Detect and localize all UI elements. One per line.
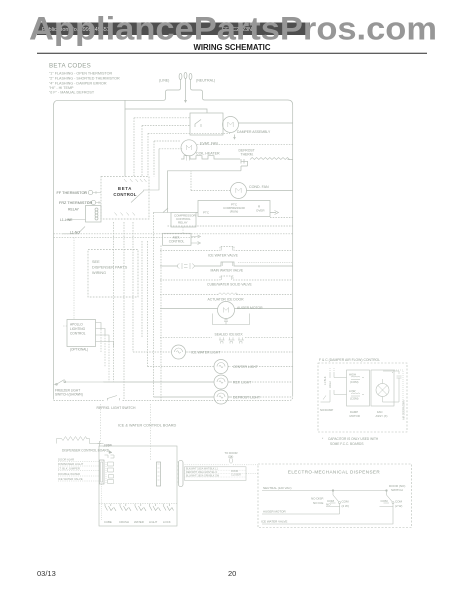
svg-text:CONTROL: CONTROL	[70, 332, 86, 336]
board input junction	[98, 441, 115, 458]
junction label	[104, 443, 112, 447]
damper assembly box	[190, 113, 223, 135]
svg-text:PTC: PTC	[203, 211, 210, 215]
schematic main group	[54, 73, 412, 528]
label cube water valve	[207, 283, 252, 287]
ground symbol at plug	[184, 79, 187, 104]
label refrig light switch	[97, 406, 136, 410]
cube water valve coil	[160, 276, 293, 280]
svg-text:HIGH: HIGH	[328, 381, 332, 388]
svg-text:*: *	[322, 437, 324, 441]
svg-text:ICE WATER VALVE: ICE WATER VALVE	[261, 520, 287, 524]
svg-text:COND. FAN: COND. FAN	[249, 185, 269, 189]
svg-text:DISPENSER LIGHT: DISPENSER LIGHT	[58, 462, 83, 466]
svg-text:CRUSH: CRUSH	[119, 520, 129, 524]
svg-text:CUBE/WATER SOLID VALVE: CUBE/WATER SOLID VALVE	[207, 283, 252, 287]
label coil heater	[196, 152, 220, 156]
FC left wires	[321, 368, 345, 402]
svg-text:EVAP. FAN: EVAP. FAN	[200, 142, 218, 146]
board right connector	[177, 461, 183, 487]
title WIRING SCHEMATIC	[37, 43, 427, 53]
freezer light switch	[54, 380, 104, 386]
svg-text:LIGHTING: LIGHTING	[70, 327, 86, 331]
to door connector	[185, 456, 259, 474]
svg-text:(2 W): (2 W)	[395, 504, 402, 508]
label frz thermistor	[59, 201, 93, 205]
defrost light lamp	[154, 390, 293, 404]
wire damper to neutral	[239, 122, 293, 124]
svg-text:NO DISP.: NO DISP.	[311, 497, 324, 501]
label dispenser heater	[62, 449, 110, 453]
label ice water valve	[208, 254, 239, 258]
svg-text:NO: NO	[326, 503, 331, 507]
FC fan box	[371, 370, 394, 406]
ice box signal line	[160, 336, 293, 338]
ground arrow near evap fan	[233, 135, 236, 140]
label sealed ice box	[215, 333, 244, 337]
svg-text:L1-NO: L1-NO	[70, 231, 80, 235]
label center light	[233, 365, 258, 369]
svg-text:ICE & WATER CONTROL BOARD: ICE & WATER CONTROL BOARD	[118, 424, 177, 428]
svg-text:SEE: SEE	[92, 260, 100, 264]
label beta control	[113, 186, 136, 197]
schematic text group	[49, 63, 406, 525]
svg-text:BLU/WHT 18GA ORN/BLK SW: BLU/WHT 18GA ORN/BLK SW	[186, 475, 220, 478]
PTC compressor run box	[196, 201, 279, 217]
lighting control box	[62, 237, 114, 382]
svg-text:SEALED ICE BOX: SEALED ICE BOX	[215, 333, 244, 337]
evap fan motor	[181, 140, 293, 156]
svg-text:OVER: OVER	[256, 209, 265, 213]
FC right return	[394, 370, 403, 414]
ice water light lamp	[133, 345, 293, 359]
svg-text:FRZ THERMISTOR: FRZ THERMISTOR	[59, 201, 93, 205]
svg-text:ICE WATER LIGHT: ICE WATER LIGHT	[191, 351, 220, 355]
svg-text:(LINE): (LINE)	[159, 79, 169, 83]
ref light lamp	[104, 375, 293, 389]
svg-text:AIR DOOR (SW): AIR DOOR (SW)	[402, 400, 406, 420]
wire L1-line	[66, 219, 86, 221]
compressor control relay box	[153, 208, 196, 227]
svg-text:ELECTRO-MECHANICAL DISPENSER: ELECTRO-MECHANICAL DISPENSER	[288, 470, 380, 475]
bus line A y233.8	[54, 233, 293, 235]
svg-text:(RUN): (RUN)	[230, 210, 239, 214]
FRZ thermistor	[88, 200, 101, 204]
label lighting control	[70, 323, 88, 352]
svg-text:ICE WATER VALVE: ICE WATER VALVE	[58, 477, 83, 481]
label defrost light	[233, 396, 260, 400]
svg-text:LT. BLK JUMPER: LT. BLK JUMPER	[58, 467, 80, 471]
svg-text:WIRING SCHEMATIC: WIRING SCHEMATIC	[194, 43, 271, 52]
svg-text:COM: COM	[395, 500, 403, 504]
label cond fan	[249, 185, 269, 189]
svg-text:AppliancePartsPros.com: AppliancePartsPros.com	[29, 11, 437, 47]
label defrost therm	[239, 149, 255, 157]
svg-text:DAMPER ASSEMBLY: DAMPER ASSEMBLY	[237, 130, 271, 134]
power plug P1	[162, 73, 206, 101]
svg-text:"HI" - HI TEMP: "HI" - HI TEMP	[49, 86, 74, 90]
main water valve coil	[160, 262, 293, 269]
EM labels	[261, 484, 405, 524]
label freezer light switch	[55, 389, 83, 397]
svg-text:BETA CODES: BETA CODES	[49, 63, 91, 70]
wire neutral bus right	[206, 100, 293, 397]
svg-text:DEFROST LIGHT: DEFROST LIGHT	[233, 396, 260, 400]
wire dashed into damper left	[125, 109, 190, 177]
svg-text:SWITCH (SHOWN): SWITCH (SHOWN)	[55, 393, 83, 397]
board mid connector	[157, 462, 161, 486]
FC damper motor box	[344, 370, 370, 406]
label L1-line	[60, 218, 73, 222]
svg-text:COM: COM	[381, 499, 389, 503]
node feed to damper	[125, 100, 207, 113]
wire defrost return	[168, 171, 242, 213]
label line	[159, 79, 169, 83]
svg-text:RELAY: RELAY	[178, 221, 188, 225]
svg-text:MOTOR: MOTOR	[350, 414, 360, 418]
svg-text:BETA: BETA	[118, 186, 132, 191]
actuator ice door coil	[160, 293, 293, 295]
EM switch 1	[326, 491, 341, 515]
water tube heater line	[238, 262, 293, 264]
FC footnote	[322, 437, 379, 446]
label compressor control relay	[174, 214, 197, 225]
svg-text:REF. LIGHT: REF. LIGHT	[233, 381, 251, 385]
EM switch 2	[380, 491, 395, 522]
ice box connectors	[219, 337, 244, 343]
svg-text:DOUBLE WATER: DOUBLE WATER	[58, 472, 80, 476]
defrost heater zigzag	[250, 158, 293, 160]
FC vertical text	[323, 376, 406, 420]
svg-text:CONTROL: CONTROL	[113, 192, 136, 197]
damper motor M	[223, 117, 239, 133]
svg-text:ASSY (X): ASSY (X)	[376, 414, 388, 418]
relay coil	[86, 206, 102, 223]
label ff thermistor	[57, 191, 88, 195]
svg-text:(NEUTRAL): (NEUTRAL)	[196, 79, 215, 83]
board edge connector J1	[100, 460, 105, 484]
bus line C y226	[168, 218, 293, 227]
label main water valve	[211, 269, 244, 273]
svg-text:ICE WATER VALVE: ICE WATER VALVE	[208, 254, 239, 258]
membrane switches	[105, 504, 174, 511]
svg-text:NO/DUMP: NO/DUMP	[320, 408, 333, 412]
svg-text:LIGHT: LIGHT	[149, 520, 158, 524]
watermark AppliancePartsPros.com	[29, 11, 437, 47]
see dispenser parts wiring box	[88, 250, 138, 298]
EM neutral line	[262, 490, 387, 492]
svg-text:LOCK: LOCK	[163, 520, 171, 524]
aux control box	[163, 227, 201, 245]
svg-text:*: *	[392, 371, 394, 375]
label see dispenser	[92, 260, 128, 275]
svg-text:NEUTRAL (120 VAC): NEUTRAL (120 VAC)	[263, 486, 292, 490]
label ice water control board	[118, 424, 177, 428]
cond fan motor	[191, 171, 293, 199]
wires nested into beta control top	[142, 126, 230, 191]
label L1-NO	[70, 231, 80, 235]
verticals center column	[114, 213, 162, 401]
EM water valve line	[262, 522, 393, 525]
svg-text:DOOR AJAR: DOOR AJAR	[58, 458, 74, 462]
label auger motor	[237, 306, 263, 310]
ice water board outline	[99, 446, 177, 526]
svg-text:MAIN WATER VALVE: MAIN WATER VALVE	[211, 269, 244, 273]
label relay	[68, 208, 80, 212]
svg-text:CENTER LIGHT: CENTER LIGHT	[233, 365, 258, 369]
board input label wires	[58, 462, 100, 482]
legend beta codes	[49, 63, 120, 95]
footer date	[37, 569, 56, 578]
label to door	[225, 451, 238, 459]
board switch labels	[104, 520, 171, 524]
refrig light switch	[108, 396, 120, 401]
svg-text:COM: COM	[342, 500, 350, 504]
svg-text:REFRIG. LIGHT SWITCH: REFRIG. LIGHT SWITCH	[97, 406, 136, 410]
svg-text:(OPTIONAL): (OPTIONAL)	[70, 348, 88, 352]
svg-text:SOME F.C.C. BOARDS: SOME F.C.C. BOARDS	[330, 442, 363, 446]
svg-text:LOW: LOW	[349, 389, 356, 393]
footer page number	[228, 569, 236, 578]
bus line B y237.3	[54, 236, 197, 238]
svg-text:RELAY: RELAY	[68, 208, 80, 212]
svg-text:AUGER MOTOR: AUGER MOTOR	[237, 306, 263, 310]
defrost thermostat	[241, 159, 248, 171]
wire bottom bus	[54, 397, 293, 401]
FF thermistor	[85, 190, 101, 194]
auger motor	[160, 302, 293, 319]
label electro-mechanical dispenser	[288, 470, 380, 475]
svg-text:WIRING: WIRING	[92, 271, 106, 275]
svg-text:COIL HEATER: COIL HEATER	[196, 152, 220, 156]
svg-text:CONTROL: CONTROL	[169, 240, 185, 244]
ice water valve coil	[160, 247, 293, 251]
label damper assembly	[237, 130, 271, 134]
svg-text:APOLLO: APOLLO	[70, 323, 83, 327]
svg-text:DISPENSER CONTROL BOARD: DISPENSER CONTROL BOARD	[62, 449, 110, 453]
svg-text:L1 BLK: L1 BLK	[323, 376, 327, 385]
label PTC compressor	[203, 203, 265, 215]
svg-text:HIGH: HIGH	[349, 373, 356, 377]
harness box text	[186, 468, 241, 478]
svg-text:20: 20	[228, 569, 236, 578]
svg-text:AUGER MOTOR: AUGER MOTOR	[263, 510, 286, 514]
svg-text:WATER: WATER	[134, 520, 144, 524]
wire L1-NO switch	[62, 227, 85, 234]
svg-text:CONN: CONN	[104, 443, 112, 447]
header publication bar	[37, 23, 310, 36]
svg-text:L1-LINE: L1-LINE	[60, 218, 73, 222]
ice and water board connect wires	[101, 404, 151, 460]
board relays	[106, 462, 114, 484]
svg-text:CAPACITOR IS ONLY USED WITH: CAPACITOR IS ONLY USED WITH	[328, 437, 379, 441]
harness legend box	[185, 467, 247, 481]
beta control box	[101, 177, 149, 220]
svg-text:DISPENSER PARTS: DISPENSER PARTS	[92, 266, 128, 270]
auger capacitor loop	[213, 314, 250, 325]
EM auger line	[262, 513, 340, 515]
label neutral	[196, 79, 215, 83]
board left labels	[58, 458, 83, 482]
membrane switch row line	[99, 503, 177, 505]
label ice water light	[191, 351, 220, 355]
svg-text:"1" FLASHING - OPEN THERMISTOR: "1" FLASHING - OPEN THERMISTOR	[49, 72, 112, 76]
board lower vertical	[101, 484, 103, 520]
electro-mechanical dispenser box	[258, 464, 412, 528]
label actuator ice door	[208, 298, 245, 302]
svg-text:ACTUATOR ICE DOOR: ACTUATOR ICE DOOR	[208, 298, 245, 302]
FC capacitor	[383, 371, 402, 402]
FC labels	[320, 371, 394, 418]
center light lamp	[148, 360, 293, 374]
label F and C control	[319, 358, 380, 362]
svg-text:FF THERMISTOR: FF THERMISTOR	[57, 191, 88, 195]
svg-text:(COM): (COM)	[350, 397, 358, 401]
svg-text:"d F" - MANUAL DEFROST: "d F" - MANUAL DEFROST	[49, 91, 95, 95]
label evap fan	[200, 142, 218, 146]
svg-text:(2X): (2X)	[228, 455, 233, 459]
svg-text:"4" FLASHING - DAMPER ERROR: "4" FLASHING - DAMPER ERROR	[49, 82, 107, 86]
svg-text:NO ICE: NO ICE	[313, 501, 323, 505]
svg-text:THERM.: THERM.	[241, 153, 254, 157]
svg-text:CUBE: CUBE	[104, 520, 112, 524]
svg-text:SWITCH: SWITCH	[391, 488, 403, 492]
label ref light	[233, 381, 251, 385]
label aux control	[169, 236, 185, 244]
wire line bus left	[54, 100, 163, 399]
dispenser heater resistor	[57, 437, 100, 444]
F and C damper box	[318, 363, 407, 432]
svg-text:CLOSER: CLOSER	[231, 474, 241, 477]
svg-text:03/13: 03/13	[37, 569, 56, 578]
svg-text:(2 W): (2 W)	[342, 504, 349, 508]
svg-text:F & C (DAMPER AIR FLOW) CONTRO: F & C (DAMPER AIR FLOW) CONTROL	[319, 358, 380, 362]
svg-text:(COM): (COM)	[350, 380, 358, 384]
svg-text:"2" FLASHING - SHORTED THERMIS: "2" FLASHING - SHORTED THERMISTOR	[49, 77, 120, 81]
coil heater resistor	[181, 156, 240, 161]
